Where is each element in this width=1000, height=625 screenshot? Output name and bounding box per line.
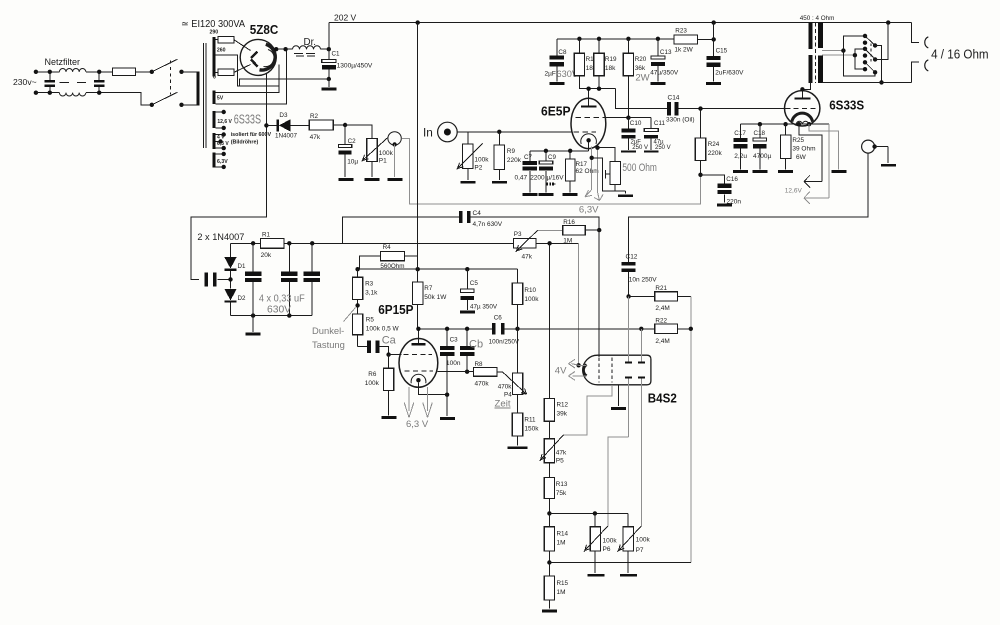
svg-text:630V: 630V	[267, 304, 291, 315]
svg-text:260: 260	[217, 47, 226, 53]
winding tap 4V c	[216, 146, 226, 150]
label Ca	[382, 335, 397, 347]
svg-text:P1: P1	[379, 158, 387, 165]
svg-text:R13: R13	[556, 481, 568, 488]
wire anode node run	[416, 327, 492, 331]
label C1 value	[337, 62, 373, 69]
tube V3 heater	[796, 121, 808, 124]
svg-text:0,47: 0,47	[515, 174, 528, 181]
label C6 value	[489, 339, 520, 346]
speaker jack terminal1	[925, 37, 929, 48]
svg-text:6,3 V: 6,3 V	[406, 419, 429, 430]
label C4 value	[473, 221, 503, 228]
svg-text:R9: R9	[507, 148, 516, 155]
svg-text:47µ/350V: 47µ/350V	[650, 70, 679, 77]
label P4 value	[498, 384, 513, 391]
potentiometer P2	[457, 132, 483, 170]
diode D3	[266, 119, 309, 131]
output jack J2	[862, 140, 877, 153]
resistor R20	[623, 39, 633, 76]
label C9 value	[530, 174, 564, 181]
svg-text:R6: R6	[368, 371, 377, 378]
label R20 value	[635, 65, 646, 72]
svg-text:6P15P: 6P15P	[378, 302, 414, 317]
label 450:4 Ohm	[800, 15, 835, 22]
svg-text:R21: R21	[655, 285, 667, 292]
arrow heater a	[585, 190, 592, 197]
wire g3 to R8	[437, 371, 473, 373]
label 230v~	[13, 77, 37, 87]
label C10 value	[631, 139, 648, 151]
transformer T2 secondary a	[818, 23, 823, 48]
svg-text:R12: R12	[557, 402, 569, 409]
label R18	[586, 56, 598, 63]
label B4S2	[648, 390, 677, 405]
capacitor filter C left	[45, 70, 56, 95]
svg-text:P4: P4	[504, 392, 512, 399]
label R13	[556, 481, 568, 488]
svg-text:R4: R4	[383, 244, 392, 251]
svg-text:R16: R16	[563, 219, 575, 226]
switch S1 gang dashes	[170, 61, 172, 95]
svg-text:(Bildröhre): (Bildröhre)	[231, 139, 259, 145]
wire eye return run	[549, 562, 690, 564]
wire switch outer bracket	[843, 36, 875, 76]
label R11 value	[524, 426, 539, 433]
tube V3 6S33S envelope	[785, 91, 820, 126]
label R22 value	[655, 338, 669, 345]
svg-text:R2: R2	[310, 113, 319, 120]
svg-text:R20: R20	[635, 56, 647, 63]
label C16 value	[727, 199, 742, 206]
wire node to P1	[345, 125, 372, 138]
ground P7	[620, 574, 637, 577]
svg-text:R3: R3	[365, 281, 374, 288]
svg-text:1300µ/450V: 1300µ/450V	[337, 62, 373, 69]
label Dunkel	[312, 325, 344, 336]
wire C6 node to R22	[518, 328, 642, 330]
svg-text:50k 1W: 50k 1W	[424, 294, 447, 301]
transformer T1 primary winding	[197, 71, 200, 105]
svg-text:47µ 350V: 47µ 350V	[470, 304, 498, 311]
node R3 R5 junction	[355, 303, 359, 307]
wire bias cap feed	[205, 272, 231, 286]
resistor R13	[544, 463, 554, 514]
capacitor C3	[440, 329, 454, 416]
svg-text:220k: 220k	[708, 150, 723, 157]
ground C3	[440, 417, 455, 420]
ground C2	[339, 178, 354, 181]
label 6P15P	[378, 302, 414, 317]
resistor R11	[512, 395, 522, 446]
svg-text:Ca: Ca	[382, 335, 397, 347]
svg-text:In: In	[423, 125, 433, 139]
svg-text:C14: C14	[668, 95, 680, 102]
wire fuse to switch	[135, 71, 152, 73]
svg-text:150k: 150k	[524, 426, 539, 433]
ground B4S2	[611, 407, 626, 410]
potentiometer P1	[362, 138, 388, 162]
winding tap 0 + fuse F3	[216, 69, 234, 75]
transformer T2 secondary b	[818, 56, 823, 83]
ground C1	[322, 88, 337, 91]
wire cathode bus ext	[786, 123, 829, 125]
label 6E5P	[541, 103, 571, 118]
wire switch to primary top	[182, 71, 197, 73]
resistor R17	[565, 151, 575, 193]
label 6S33S	[829, 97, 864, 112]
label R10 value	[524, 296, 539, 303]
label P4	[504, 392, 512, 399]
svg-text:P5: P5	[556, 458, 564, 465]
wire HV return	[240, 79, 329, 86]
wire diode string top	[230, 243, 232, 257]
wire output jack ground	[875, 147, 888, 164]
wire psu ground stem	[252, 316, 254, 332]
winding tap 4V b	[216, 139, 223, 143]
svg-text:C13: C13	[660, 49, 672, 56]
wire screen node to C11	[628, 117, 651, 119]
label R10	[524, 287, 536, 294]
label 290	[210, 30, 219, 36]
label 4x033	[259, 293, 305, 304]
capacitor C1	[322, 49, 336, 79]
wire 6P15P bus	[355, 256, 517, 271]
label C17 value	[734, 153, 747, 160]
label P3 value	[522, 254, 533, 261]
tube V5 filament	[583, 365, 586, 376]
arrow 12.6V b	[804, 192, 829, 204]
wire R9 ground stem	[498, 169, 500, 180]
label 0	[213, 74, 216, 80]
wire 202V rail	[329, 20, 912, 24]
label D2	[238, 295, 246, 302]
label C7	[524, 154, 533, 161]
label R8 value	[475, 381, 490, 388]
switch speaker blade3	[865, 62, 875, 72]
label C2	[348, 138, 357, 145]
svg-text:100k: 100k	[524, 296, 539, 303]
transformer T2 core	[814, 23, 816, 83]
tube V4 grid1 dashes	[404, 354, 433, 356]
svg-text:2,4M: 2,4M	[655, 338, 669, 345]
label C5 value	[470, 304, 498, 311]
resistor R15	[544, 563, 554, 609]
rectifier tube V1 5Z8C envelope	[240, 39, 276, 75]
arrow 12.6V a	[804, 175, 822, 187]
label P5	[556, 458, 564, 465]
svg-text:39k: 39k	[557, 411, 568, 418]
svg-text:250 V: 250 V	[632, 145, 648, 151]
tube V4 6P15P envelope	[399, 339, 438, 388]
resistor R2	[309, 120, 333, 130]
label 6S33S heater	[234, 112, 261, 126]
label P1	[379, 158, 387, 165]
ground C18	[752, 170, 767, 173]
resistor R8	[473, 368, 497, 377]
label 2W r20	[635, 73, 649, 84]
label 5Z8C	[250, 22, 279, 37]
wire 500ohm ground stem	[615, 191, 626, 194]
label C15 value	[715, 70, 744, 77]
label C7 value	[515, 174, 528, 181]
transformer T1 4V/6.3V winding	[212, 133, 215, 149]
wire contact1 to return	[875, 46, 884, 85]
label 6.3V v4	[406, 419, 429, 430]
label C6	[494, 315, 503, 322]
diode D1	[224, 257, 236, 289]
capacitor C18	[753, 124, 767, 169]
label R25	[792, 137, 804, 144]
label 5V	[217, 95, 224, 101]
winding tap 12.6V top	[216, 110, 226, 114]
tube V2 cathode	[581, 134, 597, 144]
label 12.6V	[785, 188, 803, 195]
capacitor filter Ca2	[281, 243, 297, 315]
svg-text:C16: C16	[726, 176, 738, 183]
label R21	[655, 285, 667, 292]
ground P2	[460, 181, 475, 184]
wire B+ to 202V rail	[328, 23, 330, 50]
svg-text:C10: C10	[630, 120, 642, 127]
label C18	[754, 130, 766, 137]
ground C9	[538, 193, 553, 196]
svg-text:C1: C1	[332, 50, 341, 57]
node heater V3 a	[797, 122, 801, 126]
label P2	[474, 165, 482, 172]
svg-text:100k: 100k	[379, 150, 394, 157]
capacitor Ca	[358, 340, 389, 354]
label Zeit	[495, 399, 511, 410]
wire contact2 to hot	[875, 23, 888, 60]
speaker jack terminal2	[925, 60, 929, 71]
svg-text:100k 0,5 W: 100k 0,5 W	[366, 326, 400, 333]
svg-text:6S33S: 6S33S	[829, 97, 864, 112]
wire 4V drop	[576, 243, 580, 367]
label C9	[548, 154, 557, 161]
wire pots top run	[549, 511, 628, 515]
resistor R5	[352, 314, 362, 347]
svg-text:C3: C3	[450, 337, 459, 344]
winding tap 4V a	[216, 132, 226, 136]
svg-text:2W: 2W	[635, 73, 649, 84]
label R15 value	[557, 589, 566, 596]
wire P5 wiper to pin	[564, 385, 612, 435]
svg-text:1M: 1M	[557, 589, 566, 596]
svg-text:6S33S: 6S33S	[234, 112, 261, 126]
wire speaker return	[912, 62, 919, 83]
node B+ after choke	[321, 47, 331, 51]
label C10	[630, 120, 642, 127]
ground C5	[460, 311, 475, 314]
label R24 value	[708, 150, 723, 157]
label R11	[524, 417, 536, 424]
svg-text:Dunkel-: Dunkel-	[312, 325, 344, 336]
svg-text:6W: 6W	[796, 154, 807, 161]
svg-text:2200 µ/16V: 2200 µ/16V	[530, 174, 564, 181]
svg-text:C8: C8	[558, 49, 567, 56]
svg-text:R23: R23	[675, 28, 687, 35]
potentiometer P4	[497, 372, 526, 395]
ground C11	[644, 151, 659, 153]
label C12	[626, 254, 638, 261]
label C17	[734, 130, 746, 137]
svg-text:100k: 100k	[636, 537, 651, 544]
label R19 value	[605, 65, 616, 72]
node C1 minus	[327, 77, 331, 87]
resistor R6	[383, 355, 393, 416]
label C18 value	[753, 153, 771, 160]
resistor R23	[674, 35, 697, 44]
node heater V3 b	[807, 122, 811, 126]
ground R15	[542, 610, 557, 613]
label C15	[716, 48, 728, 55]
resistor R16	[538, 226, 600, 235]
wire switch inner bracket	[855, 49, 865, 69]
label R17 value	[576, 168, 599, 175]
resistor R14	[544, 513, 554, 562]
resistor R9	[494, 132, 504, 170]
resistor R3	[352, 269, 362, 314]
svg-text:C2: C2	[348, 138, 357, 145]
wire P1 wiper feedback run	[401, 138, 700, 204]
svg-text:P2: P2	[474, 165, 482, 172]
svg-text:6,3V: 6,3V	[217, 159, 228, 165]
svg-text:250 V: 250 V	[655, 145, 671, 151]
wire secondary tap2	[822, 53, 857, 57]
transformer T1 HV winding	[212, 37, 215, 77]
label P6	[603, 546, 611, 553]
node mains N terminal	[34, 91, 38, 95]
potentiometer P3	[514, 230, 538, 252]
ground C10	[621, 151, 636, 153]
tube V2 control grid	[574, 131, 597, 133]
wire secondary bottom	[822, 81, 912, 83]
svg-text:C4: C4	[473, 210, 482, 217]
capacitor C2	[339, 125, 352, 177]
capacitor C5	[461, 269, 474, 310]
capacitor C8	[550, 39, 564, 82]
ground R11	[508, 446, 528, 449]
svg-text:P3: P3	[514, 231, 522, 238]
label R6	[368, 371, 377, 378]
label R19	[605, 56, 617, 63]
label R25 value	[792, 146, 815, 162]
label C13 value	[650, 70, 679, 77]
ground C8	[549, 82, 564, 85]
label C8 value	[545, 71, 556, 78]
label C3	[450, 337, 459, 344]
label D3	[279, 112, 288, 119]
tube V2 anode	[581, 89, 596, 108]
svg-text:R22: R22	[655, 318, 667, 325]
tube V3 cathode	[792, 113, 813, 122]
ground R17	[563, 193, 578, 196]
label C13	[660, 49, 672, 56]
node heater pin b	[595, 146, 599, 150]
capacitor C10	[622, 118, 636, 151]
resistor R1	[231, 238, 285, 248]
svg-text:B4S2: B4S2	[648, 390, 677, 405]
wire B4S2 grid drop	[598, 230, 600, 357]
ground R25	[778, 170, 793, 173]
capacitor filter C right	[94, 70, 105, 95]
wire heater lead a	[590, 147, 594, 190]
switch S1 pole1	[150, 59, 184, 74]
label R1	[262, 232, 271, 239]
wire cathode to B+ node	[274, 47, 293, 51]
resistor R24	[695, 109, 705, 177]
wire 4V lead a	[568, 359, 586, 368]
resistor R25	[780, 124, 790, 169]
svg-text:5V: 5V	[217, 95, 224, 101]
capacitor C14	[667, 102, 679, 116]
arrow heater V4 a	[404, 387, 414, 417]
resistor R7	[413, 269, 423, 329]
node R13 bottom	[547, 511, 551, 515]
svg-text:470k: 470k	[498, 384, 513, 391]
svg-text:Netzfilter: Netzfilter	[45, 57, 81, 67]
svg-text:100k: 100k	[603, 538, 618, 545]
capacitor C15	[707, 56, 721, 81]
shield circle P1 wiper	[388, 132, 401, 147]
arrow heater V4 b	[423, 387, 433, 417]
wire C14 to 6S33S grid	[678, 106, 785, 110]
switch speaker contacts L	[863, 34, 867, 72]
svg-text:C18: C18	[754, 130, 766, 137]
wire heater ground link	[809, 124, 838, 169]
svg-text:500 Ohm: 500 Ohm	[622, 162, 657, 174]
svg-text:100k: 100k	[474, 157, 489, 164]
transformer T1 12.6V winding	[212, 111, 215, 128]
wire heater lead b	[597, 148, 599, 192]
svg-text:R5: R5	[366, 317, 375, 324]
label R3	[365, 281, 374, 288]
wire screen rail right	[536, 241, 579, 245]
wire switch to primary bottom	[182, 104, 197, 106]
wire P6 gnd stem	[594, 551, 596, 573]
label C1	[332, 50, 341, 57]
tube V1 anode plates	[251, 52, 258, 67]
resistor R19	[594, 39, 604, 76]
svg-text:D1: D1	[238, 263, 246, 270]
label C2 value	[347, 159, 358, 166]
svg-text:R24: R24	[708, 141, 720, 148]
label 1N4007	[275, 133, 298, 140]
winding tap 6.3V bottom	[216, 165, 226, 169]
svg-text:Zeit: Zeit	[495, 399, 511, 410]
capacitor C9 polarity marks	[546, 182, 555, 185]
ground heater	[831, 170, 846, 173]
label R3 value	[365, 290, 378, 297]
label R13 value	[556, 490, 567, 497]
ground output jack	[881, 164, 896, 167]
capacitor C13	[651, 39, 665, 82]
label R14	[557, 531, 569, 538]
label C14	[668, 95, 680, 102]
svg-text:100n/250V: 100n/250V	[489, 339, 520, 346]
ground C13	[650, 82, 665, 85]
label R15	[557, 580, 569, 587]
tube V2 screen grid	[576, 117, 604, 119]
label R1 value	[261, 252, 272, 259]
svg-text:6,3V: 6,3V	[579, 204, 599, 215]
wire heater V3 b	[828, 124, 830, 198]
resistor R18	[574, 39, 584, 76]
transformer T1 5V winding	[212, 90, 215, 104]
svg-text:5Z8C: 5Z8C	[250, 22, 279, 37]
wire cathode bus V3	[741, 122, 788, 126]
